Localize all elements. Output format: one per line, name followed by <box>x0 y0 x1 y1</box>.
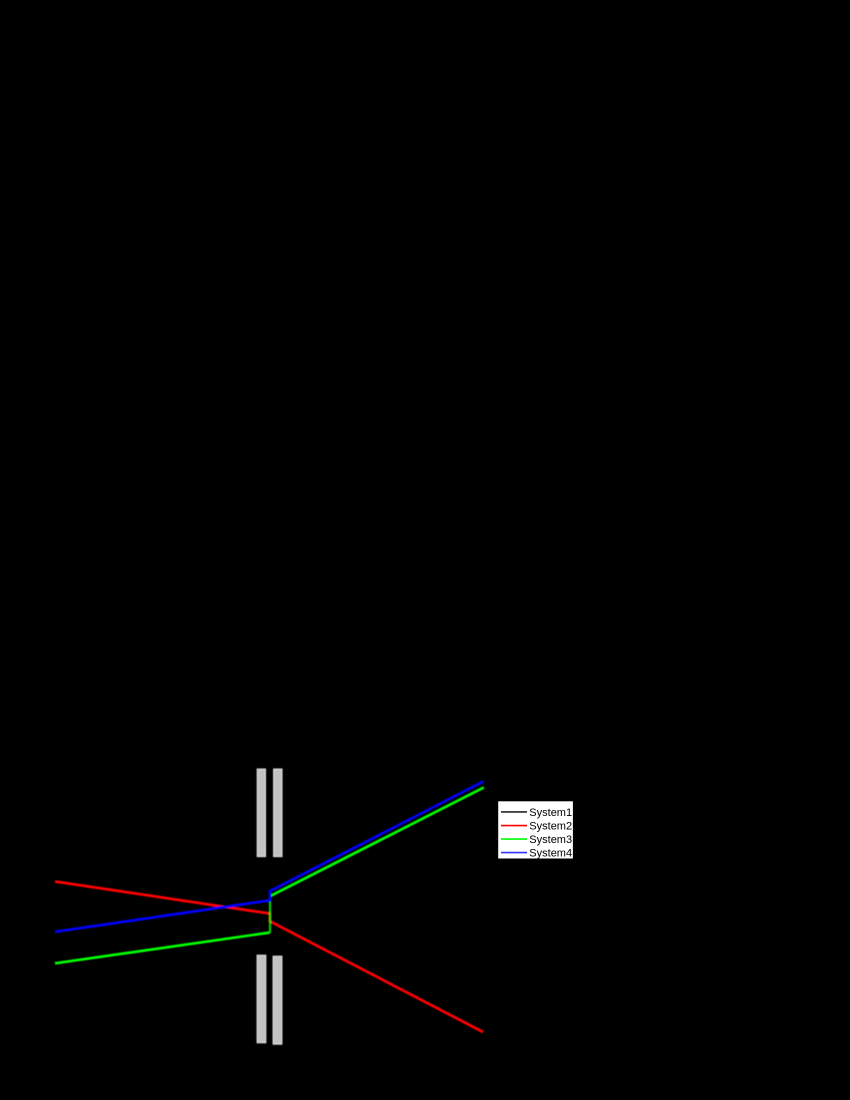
legend box <box>498 801 574 859</box>
aperture bar top-right <box>274 769 282 857</box>
aperture bar bottom-left <box>257 955 266 1043</box>
ray System3 (green) outgoing segment <box>270 787 484 896</box>
aperture bar top-left <box>257 769 265 857</box>
ray System3 (green) incoming segment <box>55 933 270 964</box>
legend sample System3 <box>501 838 527 840</box>
svg-text:System3: System3 <box>529 834 572 846</box>
legend sample System2 <box>501 825 527 827</box>
ray System2 (red) <box>55 882 483 1033</box>
legend sample System4 <box>501 852 527 854</box>
ray System4 (blue) <box>55 781 484 932</box>
svg-text:System1: System1 <box>529 807 572 819</box>
ray System3 (green) vertical jump at lens plane <box>269 896 271 932</box>
legend sample System1 <box>501 811 527 813</box>
aperture bar bottom-right <box>273 956 282 1044</box>
svg-text:System2: System2 <box>529 821 572 833</box>
svg-text:System4: System4 <box>529 848 572 860</box>
